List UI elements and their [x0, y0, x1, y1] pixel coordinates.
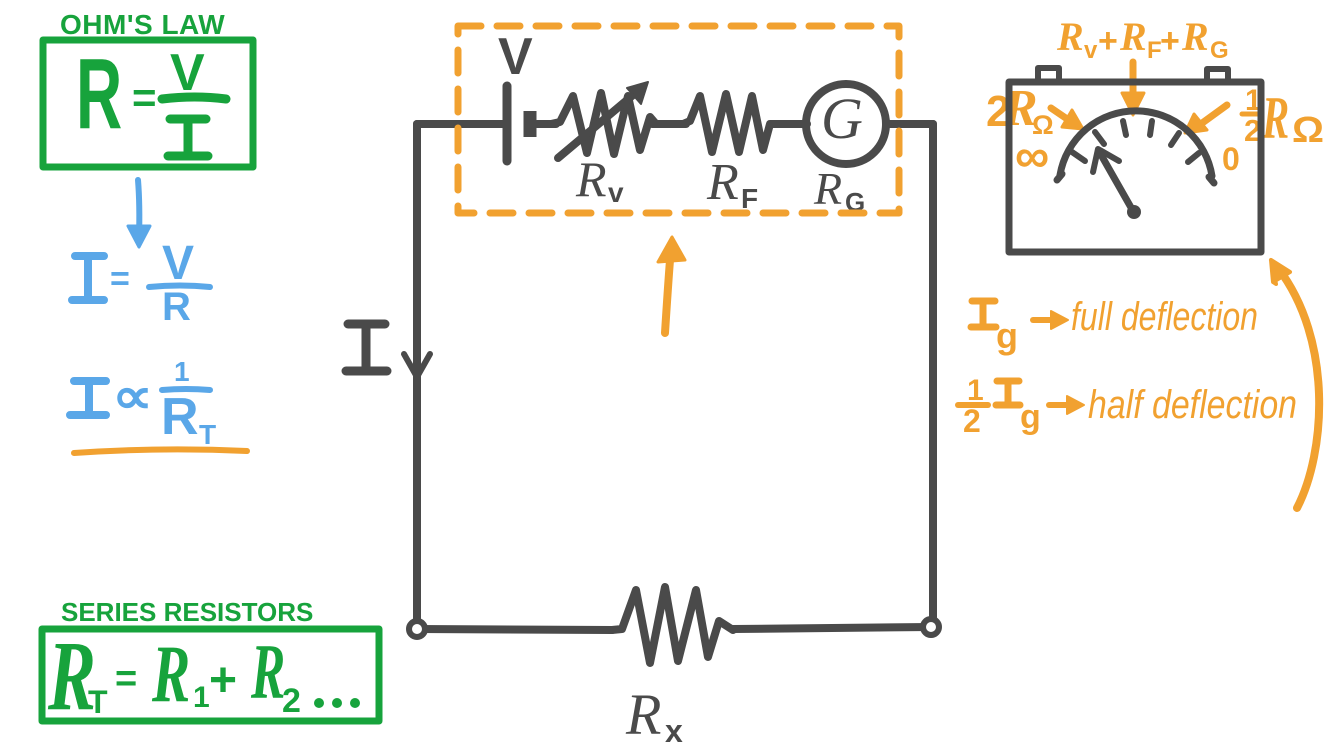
svg-text:∞: ∞ [1015, 130, 1049, 183]
svg-text:R: R [161, 388, 199, 446]
wire top-left horizontal [417, 120, 503, 128]
galvanometer G circle [806, 84, 886, 164]
svg-text:x: x [665, 713, 683, 749]
meter body box [1009, 82, 1261, 252]
battery V short plate [524, 111, 537, 137]
junction node right [923, 619, 939, 635]
orange underline under I∝1/RT [74, 449, 247, 453]
svg-text:1: 1 [193, 681, 210, 714]
svg-text:R: R [813, 163, 842, 214]
small arrow right [1194, 105, 1227, 129]
small arrow left [1051, 108, 1073, 123]
note half Ig half deflection [963, 374, 1041, 439]
current I arrowhead on left wire [404, 354, 430, 377]
svg-text:v: v [608, 177, 624, 208]
wire Rv to RF [652, 120, 686, 128]
note Ig full deflection [971, 301, 996, 327]
formula R = V/I [76, 37, 205, 149]
svg-text:R: R [1056, 14, 1084, 59]
dark labels [346, 28, 865, 749]
svg-text:V: V [162, 237, 194, 290]
scale end hook left [1057, 174, 1062, 180]
svg-text:F: F [741, 183, 758, 214]
svg-text:R: R [1181, 14, 1209, 59]
svg-text:R: R [162, 285, 191, 329]
METER (dark) [1009, 68, 1261, 252]
svg-text:G: G [821, 86, 863, 151]
svg-text:=: = [132, 74, 157, 121]
junction node left [409, 621, 425, 637]
svg-text:2: 2 [282, 682, 301, 720]
GREEN NOTES [43, 9, 253, 167]
svg-text:R: R [76, 37, 122, 149]
wire right vertical [929, 124, 937, 627]
battery V long plate [503, 86, 512, 161]
svg-text:R: R [250, 630, 285, 716]
label Rv+RF+RG [1056, 14, 1229, 64]
svg-text:half deflection: half deflection [1088, 383, 1297, 427]
Rv arrow diagonal [558, 90, 639, 158]
scale ticks [1072, 121, 1199, 162]
label 1/2 R ohm right [1244, 84, 1324, 152]
formula RT = R1 + R2 ... [47, 619, 301, 730]
svg-text:+: + [209, 654, 237, 707]
needle pivot [1127, 205, 1141, 219]
svg-text:OHM'S LAW: OHM'S LAW [60, 9, 225, 40]
svg-text:R: R [706, 154, 739, 211]
label 2R ohm left [986, 80, 1054, 140]
meter terminal tab right [1207, 69, 1228, 81]
svg-text:R: R [625, 682, 661, 747]
svg-text:+: + [1098, 22, 1118, 60]
svg-text:1: 1 [174, 356, 190, 387]
ORANGE annotations [458, 14, 1324, 508]
dashed selection box around V, Rv, RF, G [458, 26, 899, 213]
svg-text:SERIES RESISTORS: SERIES RESISTORS [61, 597, 313, 627]
big curved arrow to meter [1278, 268, 1319, 508]
svg-text:T: T [88, 684, 108, 720]
svg-text:R: R [151, 629, 190, 719]
svg-text:0: 0 [1222, 141, 1240, 177]
svg-text:+: + [1160, 22, 1180, 60]
scale end hook right [1209, 177, 1214, 183]
needle arrowhead [1093, 149, 1119, 172]
arrow from ohm's law box down [138, 180, 139, 238]
svg-text:2: 2 [963, 403, 981, 439]
svg-text:=: = [110, 260, 130, 298]
label I current [346, 324, 387, 371]
svg-text:full deflection: full deflection [1071, 295, 1258, 339]
variable resistor Rv zigzag [551, 93, 656, 154]
wire bottom right segment [733, 627, 931, 629]
formula I ∝ 1/RT [70, 381, 106, 415]
needle [1100, 153, 1133, 211]
svg-text:v: v [1084, 37, 1098, 64]
svg-text:∝: ∝ [112, 368, 153, 424]
resistor RF zigzag [683, 94, 775, 152]
arrow down to meter [1130, 62, 1137, 106]
ohm's law box [43, 40, 253, 167]
svg-text:Ω: Ω [1292, 109, 1324, 150]
meter scale arc [1060, 111, 1212, 176]
svg-text:V: V [498, 28, 533, 86]
svg-text:R: R [1119, 14, 1147, 59]
BLUE NOTES [70, 180, 216, 450]
arrow pointing up at dashed box [665, 247, 671, 333]
resistor Rx zigzag [612, 587, 733, 663]
formula I = V/R [72, 256, 104, 300]
svg-text:T: T [199, 419, 216, 450]
wire left vertical [413, 124, 421, 629]
wire battery to Rv [537, 120, 556, 128]
svg-text:G: G [1210, 37, 1229, 64]
svg-text:R: R [575, 151, 607, 207]
svg-text:=: = [115, 658, 137, 700]
series resistors box [42, 629, 379, 721]
wire bottom left segment [417, 629, 612, 630]
wire G to right corner [886, 120, 933, 128]
meter terminal tab left [1038, 68, 1059, 81]
GREEN NOTES 2 : series resistors [42, 597, 379, 731]
CIRCUIT (dark) [404, 82, 939, 663]
svg-text:R: R [1261, 85, 1289, 152]
wire RF to G [773, 120, 807, 128]
svg-text:g: g [996, 315, 1018, 356]
